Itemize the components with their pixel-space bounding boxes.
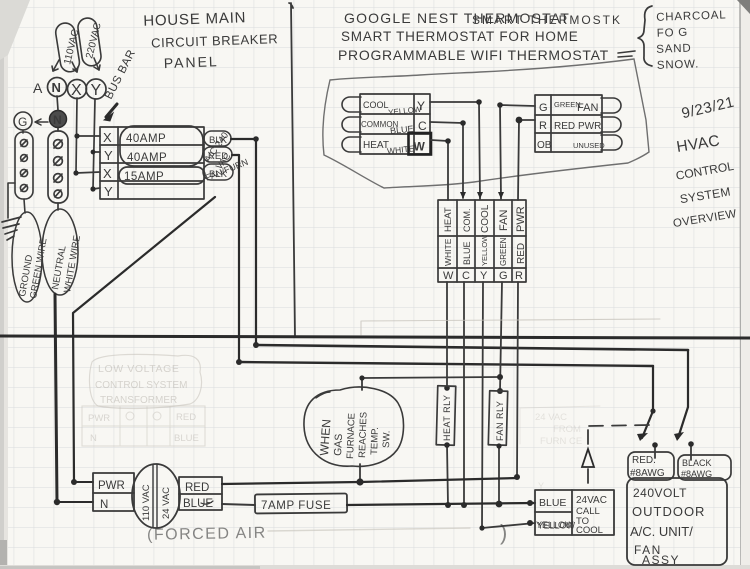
svg-text:A: A bbox=[33, 80, 43, 96]
thermostat enclosure blob bbox=[323, 59, 649, 188]
label oval: NEUTRAL WHITE WIRE bbox=[42, 209, 83, 295]
svg-text:PWR: PWR bbox=[515, 206, 527, 232]
svg-text:GREEN: GREEN bbox=[499, 237, 508, 266]
wire temp switch to fan relay coil bbox=[362, 377, 500, 390]
left block spade tabs bbox=[342, 97, 361, 152]
svg-text:24 VAC: 24 VAC bbox=[161, 487, 172, 519]
erased: 24 vac from furnace note bbox=[520, 406, 600, 491]
svg-text:40AMP: 40AMP bbox=[126, 133, 166, 145]
svg-text:WHITE: WHITE bbox=[443, 238, 453, 266]
wire label pill RED (40A Y) bbox=[203, 147, 232, 162]
svg-text:FROM: FROM bbox=[553, 424, 581, 435]
svg-text:7AMP FUSE: 7AMP FUSE bbox=[261, 500, 331, 512]
svg-text:40AMP: 40AMP bbox=[127, 152, 167, 164]
svg-text:FURN CE: FURN CE bbox=[540, 436, 582, 447]
svg-text:Y: Y bbox=[480, 270, 488, 282]
wire 24V common line from fuse to call-to-cool BLUE bbox=[347, 503, 535, 505]
wire-nut junction block bbox=[438, 200, 526, 282]
transformer T1 primary terminal box PWR/N bbox=[93, 473, 134, 511]
svg-text:COOL: COOL bbox=[576, 525, 603, 536]
svg-text:YELLOW: YELLOW bbox=[538, 521, 576, 531]
arrow to color list brace bbox=[618, 51, 635, 57]
right block spade tabs bbox=[601, 98, 622, 150]
svg-text:SMART THERMOSTAT FOR HOME: SMART THERMOSTAT FOR HOME bbox=[341, 29, 579, 44]
svg-text:WHEN: WHEN bbox=[317, 419, 334, 457]
source pill 110VAC bbox=[54, 22, 81, 73]
svg-text:ASSY: ASSY bbox=[642, 553, 680, 567]
breaker 40AMP double pole pill bbox=[120, 126, 203, 166]
wire X node to breaker rows X bbox=[76, 98, 100, 173]
wire C blue down to 24V common line bbox=[463, 282, 465, 505]
ground bus terminal strip bbox=[15, 132, 33, 199]
svg-text:REACHES: REACHES bbox=[357, 412, 370, 458]
wire G node to ground strip bbox=[22, 130, 24, 133]
wire ground strip to earth bbox=[8, 183, 15, 218]
svg-text:Y: Y bbox=[104, 184, 113, 199]
arrow head (call to cool, pointing up) bbox=[582, 449, 594, 467]
wire neutral white down to transformer N bbox=[55, 294, 57, 502]
svg-text:OUTDOOR: OUTDOOR bbox=[632, 504, 705, 519]
arrows from sources to N X Y nodes bbox=[52, 58, 100, 72]
pin stub to BLACK box bbox=[690, 446, 692, 460]
transformer T1 body 110VAC/24VAC bbox=[132, 464, 180, 528]
source pill 220VAC bbox=[77, 17, 104, 67]
svg-text:COOL: COOL bbox=[480, 204, 491, 233]
list: thermostat color options bbox=[655, 9, 728, 71]
svg-text:SNOW.: SNOW. bbox=[657, 58, 700, 71]
svg-text:PWR: PWR bbox=[578, 121, 601, 132]
svg-text:SAND: SAND bbox=[656, 43, 692, 56]
temp switch blob: WHEN GAS FURNACE REACHES TEMP. SW. bbox=[304, 387, 404, 466]
breaker row labels X Y X Y bbox=[103, 130, 113, 199]
breaker panel box bbox=[100, 127, 204, 199]
bus bar arrow (bold) bbox=[106, 104, 117, 117]
svg-text:BLK: BLK bbox=[209, 135, 228, 146]
svg-text:G: G bbox=[18, 115, 27, 129]
wire G green from thermostat bbox=[500, 105, 535, 199]
node N neutral (scribbled dark) bbox=[50, 111, 67, 128]
box: 24VAC CALL TO COOL bbox=[535, 490, 614, 535]
svg-text:GAS: GAS bbox=[332, 433, 345, 456]
thermostat left terminal block bbox=[360, 94, 430, 154]
erased: low voltage transformer note bbox=[90, 354, 202, 408]
svg-text:Y: Y bbox=[417, 99, 425, 113]
svg-text:FAN: FAN bbox=[577, 102, 598, 114]
svg-text:COOL: COOL bbox=[363, 100, 389, 110]
svg-text:BLK: BLK bbox=[209, 169, 228, 180]
svg-text:R: R bbox=[515, 270, 523, 282]
svg-text:TEMP.: TEMP. bbox=[369, 427, 381, 455]
svg-text:RED: RED bbox=[554, 121, 575, 132]
label box BLACK #8AWG bbox=[678, 455, 731, 480]
svg-text:FURNACE: FURNACE bbox=[345, 413, 358, 459]
wire label pill BLK (15A X) bbox=[203, 164, 233, 180]
svg-text:LOW VOLTAGE: LOW VOLTAGE bbox=[98, 363, 179, 375]
svg-text:RED: RED bbox=[185, 482, 209, 494]
svg-text:SW.: SW. bbox=[381, 430, 393, 448]
fuse F1: 7 AMP FUSE bbox=[255, 494, 347, 514]
wire heat relay to common line bbox=[447, 445, 448, 505]
label: GOOGLE NEST THERMOSTAT heading bbox=[338, 10, 609, 63]
svg-text:Y: Y bbox=[104, 148, 113, 163]
svg-text:FAN RLY: FAN RLY bbox=[495, 401, 505, 441]
thermostat right terminal block bbox=[535, 95, 602, 152]
pin stub to RED box bbox=[654, 447, 656, 458]
svg-text:(FORCED AIR: (FORCED AIR bbox=[147, 525, 267, 544]
box: 240 VOLT OUTDOOR A/C UNIT / FAN ASSY bbox=[627, 478, 727, 567]
svg-text:YELLOW: YELLOW bbox=[480, 234, 489, 266]
erased: forced air note bbox=[147, 520, 507, 545]
svg-text:110 VAC: 110 VAC bbox=[141, 484, 152, 521]
wire BLK 40A leg X to outdoor unit (black #8) bbox=[231, 139, 688, 438]
svg-text:HEAT RLY: HEAT RLY bbox=[442, 394, 452, 441]
wire fan relay to common line bbox=[498, 445, 500, 504]
svg-text:CHARCOAL: CHARCOAL bbox=[656, 9, 727, 23]
node N (110V hot) bbox=[48, 78, 67, 97]
svg-text:C: C bbox=[418, 119, 427, 133]
svg-text:24VAC: 24VAC bbox=[576, 495, 607, 506]
main 120V hot line (full width) bbox=[0, 336, 750, 338]
wire neutral strip to label oval bbox=[57, 203, 59, 210]
title: HVAC CONTROL SYSTEM OVERVIEW bbox=[672, 132, 737, 230]
svg-text:PANEL: PANEL bbox=[164, 53, 219, 71]
svg-text:UNUSED: UNUSED bbox=[573, 141, 605, 150]
wire W white down to heat relay bbox=[446, 282, 448, 387]
svg-text:G: G bbox=[499, 270, 508, 282]
wire transformer BLUE to fuse bbox=[222, 504, 255, 505]
node G (ground) bbox=[14, 112, 32, 130]
svg-text:): ) bbox=[500, 520, 507, 545]
svg-text:BLUE: BLUE bbox=[539, 497, 566, 509]
wire R red from thermostat bbox=[518, 120, 535, 200]
svg-text:HEAT: HEAT bbox=[443, 207, 454, 232]
wire label pill BLK (40A X) bbox=[204, 131, 231, 146]
section divider line bbox=[289, 3, 295, 337]
svg-text:N: N bbox=[53, 113, 62, 127]
wire R red down to 24V hot line bbox=[517, 282, 518, 477]
svg-text:X: X bbox=[103, 130, 112, 145]
svg-text:RED.: RED. bbox=[632, 455, 656, 466]
neutral bus terminal strip bbox=[48, 131, 68, 203]
svg-text:FO G: FO G bbox=[657, 27, 689, 40]
relay FAN RLY bbox=[488, 391, 507, 445]
svg-text:N: N bbox=[52, 80, 61, 95]
svg-text:FAN: FAN bbox=[498, 210, 510, 231]
svg-text:15AMP: 15AMP bbox=[124, 171, 164, 183]
svg-text:R: R bbox=[539, 120, 547, 132]
svg-text:240VOLT: 240VOLT bbox=[633, 486, 687, 500]
svg-text:N: N bbox=[100, 499, 108, 511]
svg-text:BLACK: BLACK bbox=[682, 458, 712, 468]
wire breaker 15A to transformer PWR (diagonal) bbox=[73, 197, 215, 482]
svg-text:C: C bbox=[462, 270, 470, 282]
svg-text:Y: Y bbox=[538, 481, 544, 491]
svg-text:X: X bbox=[71, 82, 82, 99]
svg-text:SMART THERMOSTK: SMART THERMOSTK bbox=[472, 13, 622, 27]
svg-text:TRANSFORMER: TRANSFORMER bbox=[100, 395, 177, 406]
svg-text:BLUE: BLUE bbox=[174, 433, 199, 444]
svg-text:N: N bbox=[90, 433, 97, 444]
svg-text:X: X bbox=[103, 166, 112, 181]
svg-text:A/C. UNIT/: A/C. UNIT/ bbox=[630, 524, 693, 539]
wire RED 40A leg Y to outdoor unit (red #8) bbox=[232, 155, 653, 438]
wire Y node to breaker rows Y bbox=[93, 99, 100, 189]
erased: old transformer sketch bbox=[82, 406, 205, 446]
dashed 24VAC call signal path bbox=[588, 425, 650, 483]
svg-text:OB: OB bbox=[537, 140, 552, 151]
terminal W: HEAT white (bold cell) bbox=[409, 133, 432, 155]
node Y (240V leg Y) bbox=[86, 79, 106, 99]
breaker 15AMP pill bbox=[119, 167, 205, 184]
svg-text:COM.: COM. bbox=[462, 209, 472, 233]
svg-text:BLUE: BLUE bbox=[462, 241, 472, 265]
svg-text:G: G bbox=[539, 102, 548, 114]
svg-text:PWR: PWR bbox=[98, 480, 125, 492]
label box RED #8AWG bbox=[628, 452, 674, 480]
svg-text:CONTROL SYSTEM: CONTROL SYSTEM bbox=[95, 380, 187, 391]
svg-text:W: W bbox=[443, 270, 454, 282]
svg-text:RED: RED bbox=[208, 151, 228, 162]
wire neutral node to neutral strip bbox=[57, 128, 59, 131]
svg-text:RED: RED bbox=[176, 412, 196, 423]
ground symbol (earth hatches) bbox=[2, 217, 21, 240]
svg-text:HEAT: HEAT bbox=[363, 140, 389, 151]
node X (240V leg X) bbox=[68, 80, 87, 100]
svg-text:PWR: PWR bbox=[88, 413, 110, 424]
svg-text:RED: RED bbox=[516, 243, 527, 264]
svg-text:PROGRAMMABLE WIFI THERMOSTAT: PROGRAMMABLE WIFI THERMOSTAT bbox=[338, 47, 609, 63]
brace { for thermostat colors bbox=[638, 6, 652, 66]
relay HEAT RLY bbox=[436, 386, 456, 445]
arrow from neutral N to G bbox=[35, 119, 48, 125]
wire Y yellow down to call-to-cool bbox=[482, 282, 535, 528]
junction block letter labels W C Y G R bbox=[443, 270, 523, 282]
wire 24V hot (red) from transformer to R bbox=[222, 478, 518, 484]
transformer T1 secondary terminal box RED/BLUE bbox=[179, 477, 222, 510]
title: HOUSE MAIN CIRCUIT BREAKER PANEL bbox=[143, 8, 279, 72]
label oval: GROUND GREEN WIRE bbox=[12, 212, 50, 302]
erased construction line bbox=[361, 319, 660, 335]
wire G green down to fan relay bbox=[500, 282, 502, 391]
svg-text:HOUSE MAIN: HOUSE MAIN bbox=[143, 9, 247, 30]
wire ground strip to label oval bbox=[24, 199, 25, 213]
svg-text:24 VAC: 24 VAC bbox=[535, 412, 567, 423]
wire temp switch to 24V hot bbox=[359, 464, 361, 482]
wire W white from thermostat bbox=[431, 140, 448, 200]
svg-text:Y: Y bbox=[91, 82, 102, 99]
wire C blue from thermostat bbox=[430, 122, 463, 198]
wire N circle to neutral node bbox=[57, 96, 58, 110]
wire Y yellow from thermostat bbox=[430, 102, 480, 199]
svg-text:W: W bbox=[414, 140, 426, 154]
